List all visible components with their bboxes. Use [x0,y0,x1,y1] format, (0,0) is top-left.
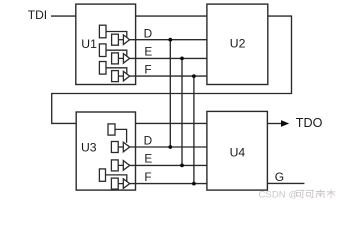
wire enable row F [106,68,127,74]
data register U1 row D [112,34,119,45]
data register U1 row E [112,53,119,64]
net F vertical wire [193,76,195,184]
wire enable row E [106,50,127,56]
tristate buffer U1 row D [123,35,129,45]
net F top wire [130,75,207,77]
tristate buffer U3 row F [123,179,129,189]
wire TDO from U4 [267,123,281,125]
boundary scan cell U1 row E: control register [99,44,106,57]
watermark glyph 可 (2) [306,190,315,197]
svg-text:E: E [144,152,152,166]
svg-text:TDI: TDI [28,8,47,22]
junction node F top [192,74,196,78]
boundary scan cell U1 row F: control register [99,62,106,75]
boundary scan cell U1 row D: control register [99,25,129,81]
junction node E bottom [180,164,184,168]
svg-text:D: D [144,26,153,40]
wire U2 serial out feedback to U3 serial in [52,16,292,123]
net E bottom wire [130,164,207,166]
net D vertical wire [169,40,171,147]
svg-text:U3: U3 [81,140,97,154]
boundary scan cell U3 row F: control register [99,169,105,181]
IC U4 [207,111,268,190]
wire [118,164,123,166]
svg-text:U2: U2 [230,37,246,51]
wire enable row D [106,32,127,38]
junction node D top [168,38,172,42]
IC U3 [76,112,135,190]
wire [118,39,123,41]
watermark glyph 南 [316,189,325,198]
wire U1 serial out to U2 serial in [136,15,207,17]
IC U2 [207,4,268,84]
svg-text:U1: U1 [81,37,97,51]
svg-text:F: F [144,62,151,76]
watermark glyph 木 [327,190,335,199]
wire [118,57,123,59]
data register U1 row F [112,71,119,82]
data register U3 row D [111,142,118,153]
junction node E top [180,57,184,61]
net D top wire [130,39,207,41]
net D bottom wire [130,146,207,148]
wire [51,15,76,17]
watermark glyph 可 [296,189,336,198]
tristate buffer U1 row F [123,71,129,81]
wire enable U3 row D [115,129,127,142]
junction node D bottom [168,145,172,149]
watermark CSDN [259,189,336,200]
junction node F bottom [192,182,196,186]
IC U1 [76,4,136,84]
wire [118,75,123,77]
svg-text:CSDN @: CSDN @ [259,189,299,200]
tristate buffer U3 row E [123,161,129,171]
wire [118,146,123,148]
tristate buffer U1 row E [123,54,129,64]
net E top wire [130,57,207,59]
arrowhead TDO [281,120,289,127]
svg-text:D: D [144,134,153,148]
svg-text:TDO: TDO [296,116,323,130]
net E vertical wire [181,58,183,165]
net F bottom wire [130,183,207,185]
wire U3 serial out to U4 serial in [136,122,207,124]
svg-text:E: E [144,45,152,59]
svg-text:G: G [275,170,284,184]
wire G from U4 [267,182,304,184]
svg-text:F: F [144,170,151,184]
svg-text:U4: U4 [230,145,246,159]
data register U3 row F [111,178,118,189]
boundary scan cell U3 row D: control register [108,124,115,135]
tristate buffer U3 row D [123,142,129,152]
wire [118,183,123,185]
data register U3 row E [111,160,118,171]
wire enable U3 row F [106,175,127,182]
